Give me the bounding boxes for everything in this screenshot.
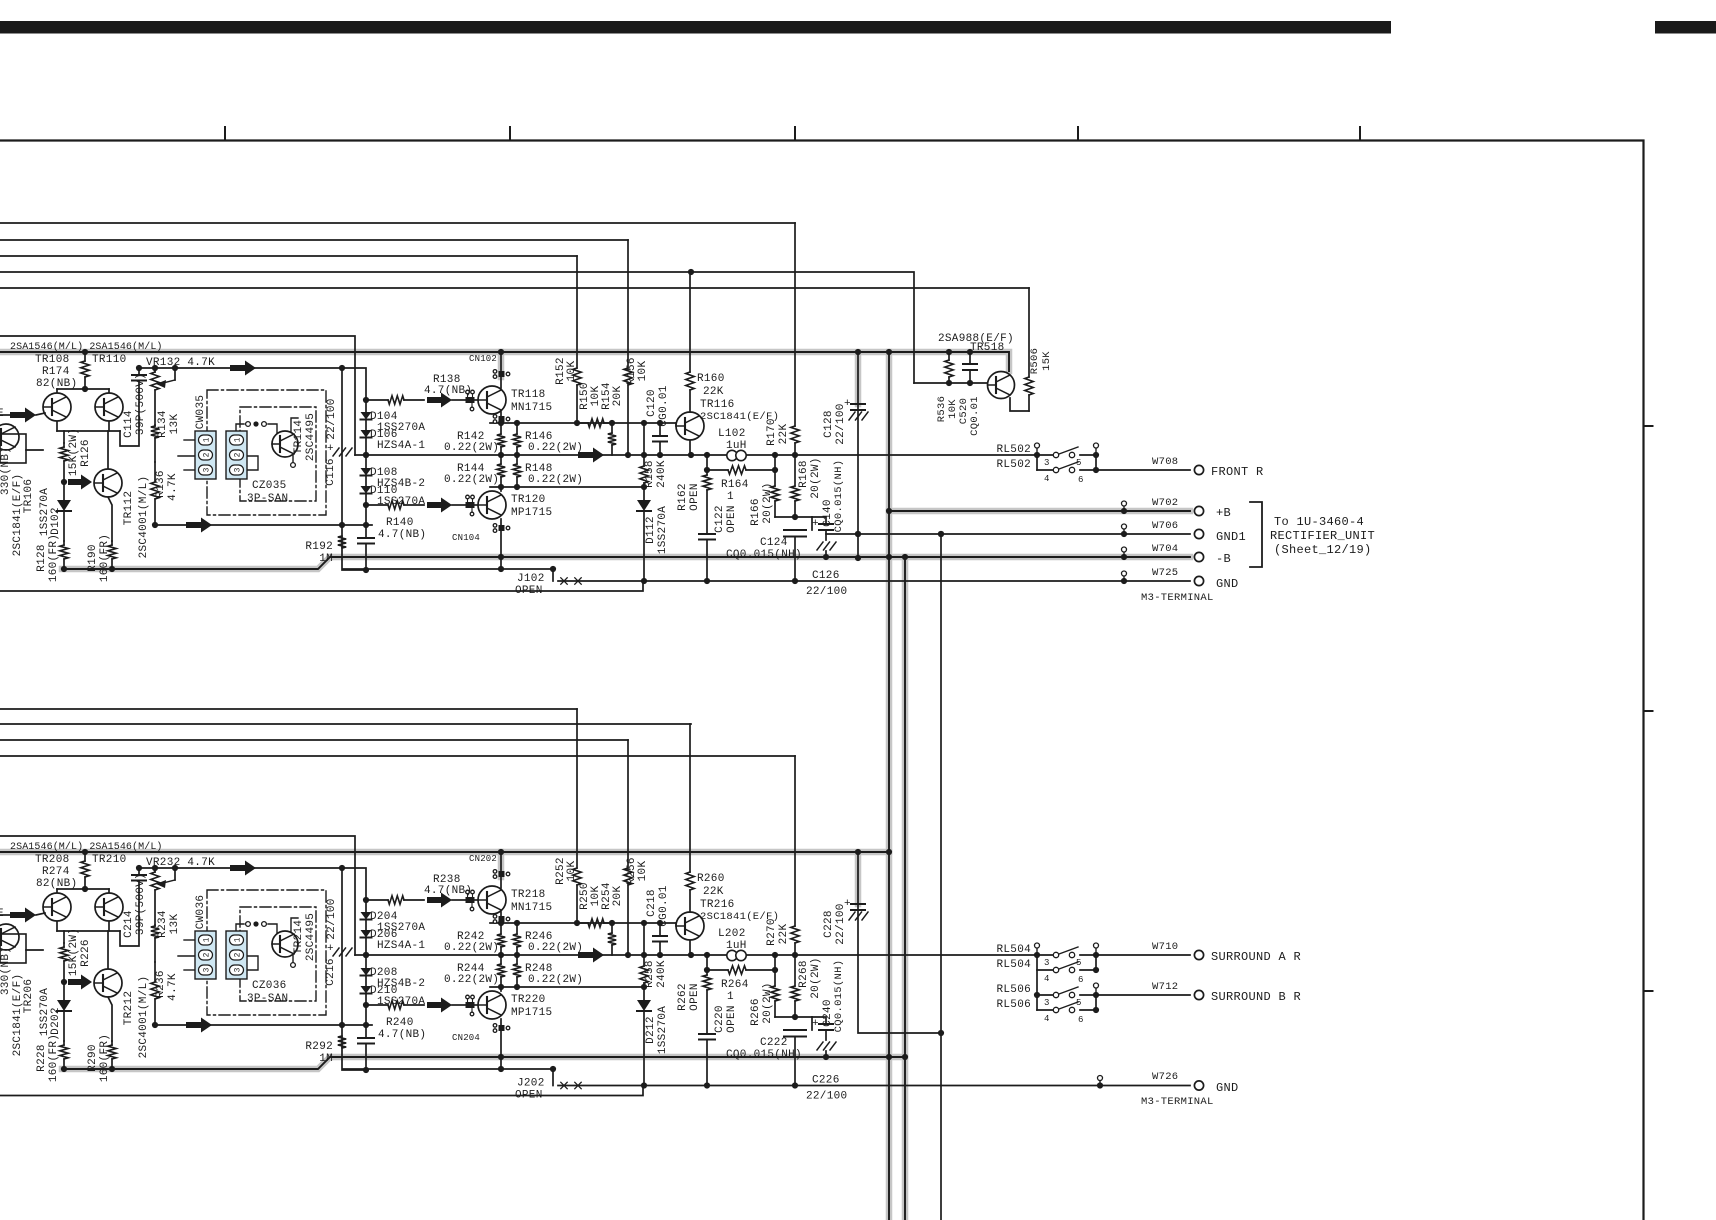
capacitor C114 [120,365,146,446]
label CZ036 [252,980,287,992]
label D212 [645,1016,657,1044]
label RL502 a [996,444,1031,456]
svg-text:C220: C220 [714,1005,726,1033]
label R158 [644,460,656,488]
signal arrow feedback line [186,518,369,533]
value 10K [637,361,649,382]
svg-text:5: 5 [1076,958,1082,968]
wire upper drive line [490,420,676,426]
svg-text:2SA1546(M/L) 2SA1546(M/L): 2SA1546(M/L) 2SA1546(M/L) [10,341,163,353]
value 4.7(NB) [378,529,426,541]
label C220 [714,1005,726,1033]
zener diode D206 [361,920,372,956]
svg-text:-B: -B [1216,552,1231,566]
label R160 [697,373,725,385]
resistor R174 [81,349,89,392]
label R150 [579,382,591,410]
label R262 [677,983,689,1011]
pin 3 RL504 [1044,958,1050,968]
svg-text:W708: W708 [1152,456,1178,468]
value 20(2W) [810,457,822,498]
value 0.22(2W) [528,442,583,454]
label D106 [370,429,398,441]
value 1SS270A [39,988,51,1036]
svg-text:10K: 10K [566,861,578,882]
svg-text:160(FR): 160(FR) [99,1034,111,1082]
relay RL502 contact 3-5 [1037,443,1099,458]
svg-text:C228: C228 [823,910,835,938]
jumper J202 [553,1069,581,1089]
value 240K [656,460,668,488]
resistor R156 [624,240,632,455]
connector CW035 [178,431,216,479]
node W706 test point [1122,524,1127,529]
label R152 [555,357,567,385]
svg-text:TR216: TR216 [700,899,735,911]
svg-text:22/100: 22/100 [806,1091,847,1103]
transistor TR206 [0,924,43,963]
capacitor C240 [812,1017,833,1040]
value 22/100 [806,586,847,598]
svg-text:TR214: TR214 [293,920,305,955]
svg-text:GND1: GND1 [1216,530,1246,544]
label R192 [305,541,333,553]
svg-text:0.22(2W): 0.22(2W) [444,942,499,954]
resistor R250 [580,919,612,927]
terminal W706 [1194,529,1203,538]
label CZ035 [252,480,287,492]
wire feeder bus D to TR518 base [0,272,914,383]
wire feedback line [155,524,372,526]
svg-text:R234: R234 [157,910,169,938]
value 10K [590,386,602,407]
svg-text:22K: 22K [778,924,790,945]
value 330(NB) [0,947,12,995]
resistor R162 [703,470,711,534]
svg-text:R174: R174 [42,366,70,378]
connector CN102 emitter pin [493,415,510,427]
relay RL504 contact 3-5 [1037,943,1099,958]
wire -B rail bus (highlighted) [62,557,905,569]
label R226 [80,939,92,967]
svg-text:1: 1 [727,491,734,503]
relay RL502 contact 4-6 [1037,455,1099,473]
svg-text:E: E [0,408,4,420]
svg-text:TR210: TR210 [92,854,127,866]
wire feeder bus C to R152 [0,255,577,257]
potentiometer VR132 [151,365,178,425]
label TR118 [511,389,546,401]
node junction D-chain mid [363,452,369,458]
label R190 [87,544,99,572]
label C122 [714,505,726,533]
label R146 [525,431,553,443]
wire feedback line [155,1024,372,1026]
svg-text:1M: 1M [319,553,333,565]
value 22/100 [835,903,847,944]
pin 6 RL506 [1078,1015,1084,1025]
transistor TR106 [0,424,43,463]
svg-text:W706: W706 [1152,520,1178,532]
svg-text:0.22(2W): 0.22(2W) [444,974,499,986]
label R292 [305,1041,333,1053]
signal arrow bias line [230,861,256,876]
label D202 [50,1007,62,1035]
resistor R290 [108,997,116,1072]
wire TR120 emitter [500,487,502,491]
svg-text:1: 1 [234,937,243,942]
svg-text:C226: C226 [812,1075,840,1087]
node W726 junction [1097,1081,1103,1089]
svg-text:R164: R164 [721,479,749,491]
zener diode D210 [361,976,372,1006]
wire ground line to W725 [558,1082,1190,1088]
resistor R158 [640,420,648,487]
label D102 [50,507,62,535]
resistor R136 [151,462,159,528]
svg-text:0.22(2W): 0.22(2W) [528,442,583,454]
label R246 [525,931,553,943]
resistor R240 [366,1001,424,1009]
resistor R134 [151,425,159,462]
svg-text:20K: 20K [612,886,624,907]
value OPEN [726,1005,738,1033]
terminal W704 [1194,552,1203,561]
label TR106 [23,479,35,514]
svg-text:C120: C120 [646,389,658,417]
wire feeder bus B2 to R260 [0,723,691,725]
value 4.7K [167,973,179,1001]
pin 3 RL506 [1044,998,1050,1008]
svg-text:1: 1 [203,437,212,442]
svg-text:RL504: RL504 [996,944,1031,956]
transistor TR118 [478,386,506,414]
svg-text:C214: C214 [123,910,135,938]
svg-text:W725: W725 [1152,567,1178,579]
svg-text:160(FR): 160(FR) [48,534,60,582]
wire highlight halos [0,352,1190,1220]
svg-text:20K: 20K [612,386,624,407]
resistor R140 [366,501,424,509]
node junction R126/D102 [61,479,67,485]
svg-text:RL506: RL506 [996,999,1031,1011]
wire input lead [0,914,10,916]
value 1SS270A [377,922,425,934]
value 2SC4495 [305,413,317,461]
value 0.22(2W) [528,474,583,486]
label 2SA988(E/F) [938,333,1014,345]
signal arrow to TR218 base [427,893,466,908]
wire -B rail to W704 (highlighted) [905,556,1190,558]
relay RL506 contact 3-5 [1037,983,1099,998]
capacitor C118 [358,505,374,573]
svg-text:VR132 4.7K: VR132 4.7K [146,357,215,369]
node W704 junction [1121,552,1127,560]
svg-text:6: 6 [1078,1015,1084,1025]
svg-text:R266: R266 [750,998,762,1026]
svg-text:R190: R190 [87,544,99,572]
svg-text:CQ0.015(NH): CQ0.015(NH) [833,460,845,533]
label GND1 [1216,530,1246,544]
resistor R128 [60,541,68,572]
label CN102 [469,354,497,364]
diode D202 [57,982,71,1041]
svg-text:TR208: TR208 [35,854,70,866]
svg-text:OPEN: OPEN [515,1090,543,1102]
wire feeder bus A2 to R252 [0,708,577,710]
value 15K(2W) [68,428,80,476]
svg-text:MN1715: MN1715 [511,902,552,914]
resistor R248 [513,955,521,987]
label R144 [457,463,485,475]
svg-text:C222: C222 [760,1037,788,1049]
svg-text:MP1715: MP1715 [511,507,552,519]
svg-text:J202: J202 [517,1078,545,1090]
svg-text:TR212: TR212 [123,991,135,1026]
svg-text:C122: C122 [714,505,726,533]
label D204 [370,911,398,923]
label RL504 a [996,944,1031,956]
label R264 [721,979,749,991]
svg-text:2SC4001(M/L): 2SC4001(M/L) [138,476,150,559]
svg-text:D102: D102 [50,507,62,535]
svg-text:4.7(NB): 4.7(NB) [378,1029,426,1041]
value 2SC1841(E/F) [12,474,24,557]
label TR114 [293,420,305,455]
resistor R228 [60,1041,68,1072]
node W725 junction [1121,576,1127,584]
label R162 [677,483,689,511]
wire feeder bus A to R170 [0,222,795,224]
signal arrow to TR118 base [427,393,466,408]
wire feeder bus B to R156 [0,239,628,241]
value 82(NB) [36,378,77,390]
svg-text:R228: R228 [36,1044,48,1072]
label D206 [370,929,398,941]
value 10K [566,361,578,382]
resistor R126 [60,431,68,482]
svg-text:3P-SAN: 3P-SAN [247,493,288,505]
connector CN204 collector pin [493,1024,510,1072]
value OPEN [689,983,701,1011]
connector CN104 collector pin [493,524,510,573]
connector CN102 collector pin [493,370,510,379]
resistor R146 [513,423,521,455]
wire TR114 base link [236,421,277,444]
label CW035 [195,395,207,430]
value 1 [727,991,734,1003]
wire W702 +B (highlighted) [889,506,1190,514]
label M3-TERMINAL [1141,592,1214,604]
node W725 test point [1122,571,1127,576]
zener diode D106 [361,420,372,456]
svg-text:OPEN: OPEN [726,505,738,533]
wire bias line [139,368,366,400]
value 22K [778,424,790,445]
label R126 [80,439,92,467]
value 20(2W) [762,982,774,1023]
connector CZ035 header [226,431,247,479]
value HZS4B-2 [377,978,425,990]
value 2SC1841(E/F) [12,974,24,1057]
wire bottom return line [343,1066,556,1072]
svg-text:GND: GND [1216,577,1239,591]
signal arrow bias line [230,361,256,376]
value 0.22(2W) [444,974,499,986]
label C114 [123,410,135,438]
svg-text:5: 5 [1076,998,1082,1008]
label R140 [386,517,414,529]
value 22K [703,886,724,898]
svg-text:22K: 22K [703,386,724,398]
svg-text:0.22(2W): 0.22(2W) [528,474,583,486]
svg-text:330(NB): 330(NB) [0,447,12,495]
wire output rail [355,454,1037,456]
pin 3 [1044,458,1050,468]
wire lower drive line [490,484,647,490]
svg-text:5: 5 [1076,458,1082,468]
zener diode D108 [361,455,372,476]
svg-text:C128: C128 [823,410,835,438]
svg-text:4: 4 [1044,974,1050,984]
resistor R252 [573,709,581,923]
value 1uH [726,940,747,952]
label L202 [718,928,746,940]
svg-text:+: + [327,943,334,955]
label TR208 [35,854,70,866]
wire W706 GND1 [826,529,1190,537]
wire TR220 collector [500,1019,502,1069]
svg-text:MN1715: MN1715 [511,402,552,414]
wire TR208 TR210 top link [57,889,109,893]
label R168 [798,460,810,488]
jumper J102 [553,569,581,584]
svg-text:330(NB): 330(NB) [0,947,12,995]
label R238 [433,874,461,886]
value 1M [319,1053,333,1065]
wire feeder bus C2 to R256 [0,739,628,741]
pin 5 RL506 [1076,998,1082,1008]
capacitor C116 [327,365,366,570]
label TR212 [123,991,135,1026]
svg-text:22/100: 22/100 [835,403,847,444]
svg-text:CQ0.015(NH): CQ0.015(NH) [726,549,802,561]
label C228 [823,910,835,938]
label TR116 [700,399,735,411]
wire TR118 emitter [500,412,502,423]
relay RL506 contact 4-6 [1037,995,1099,1013]
wire TR108 TR110 top link [57,389,109,393]
svg-text:R258: R258 [644,960,656,988]
svg-text:R268: R268 [798,960,810,988]
svg-text:R192: R192 [305,541,333,553]
label R258 [644,960,656,988]
value 0.22(2W) [444,442,499,454]
diode D212 [637,987,651,1086]
label C240 [822,999,834,1027]
value 22/100 [326,398,338,439]
svg-text:CN104: CN104 [452,533,480,543]
wire TR120 collector [500,519,502,569]
label J202 [517,1078,545,1090]
svg-text:CW035: CW035 [195,395,207,430]
wire CZ035 pin2 pin3 link [247,456,258,470]
value 4.7(NB) [424,885,472,897]
svg-text:L102: L102 [718,428,746,440]
label TR210 [92,854,127,866]
svg-text:SURROUND B R: SURROUND B R [1211,990,1301,1004]
node junctions on output rail [363,952,798,958]
svg-text:C116: C116 [325,458,337,486]
svg-text:L202: L202 [718,928,746,940]
node W702 test point [1122,501,1127,506]
svg-text:160(FR): 160(FR) [99,534,111,582]
svg-text:22/100: 22/100 [326,398,338,439]
svg-text:VR232 4.7K: VR232 4.7K [146,857,215,869]
connector CN204 base pin [466,995,489,1016]
resistor R150 [580,419,612,427]
terminal W708 [1194,465,1203,474]
value 2SC1841(E/F) [700,911,779,923]
wire TR518 base line [914,380,987,386]
label GND bottom [1216,1081,1239,1095]
svg-text:15K(2W): 15K(2W) [68,928,80,976]
svg-text:TR110: TR110 [92,354,127,366]
transistor TR518 [988,372,1015,399]
terminal W712 [1194,990,1203,999]
svg-text:RL502: RL502 [996,444,1031,456]
value 22/100 [835,403,847,444]
label R290 [87,1044,99,1072]
svg-text:240K: 240K [656,460,668,488]
zener diode D104 [361,400,372,420]
svg-text:OPEN: OPEN [689,483,701,511]
svg-text:R274: R274 [42,866,70,878]
label TR220 [511,994,546,1006]
resistor R260 [686,724,694,912]
label C140 [822,499,834,527]
wire ground return to edge [0,581,643,591]
svg-text:R264: R264 [721,979,749,991]
value 20K [612,886,624,907]
svg-text:240K: 240K [656,960,668,988]
value 1SS270A [39,488,51,536]
svg-text:R162: R162 [677,483,689,511]
wire ground return to edge [0,1086,643,1096]
resistor R506 [1025,288,1033,411]
svg-text:39P(500V): 39P(500V) [135,373,147,435]
wire +B rail bus (highlighted) [0,352,1009,371]
label C218 [646,889,658,917]
svg-text:GND: GND [1216,1081,1239,1095]
resistor R242 [497,923,505,955]
svg-text:2SC4495: 2SC4495 [305,413,317,461]
signal arrow into TR108 [10,408,45,423]
value 20(2W) [762,482,774,523]
svg-text:CN202: CN202 [469,854,497,864]
svg-text:4.7(NB): 4.7(NB) [424,885,472,897]
label C126 [812,570,840,582]
label 2SA1546(M/L) 2SA1546(M/L) [10,341,163,353]
svg-text:0.22(2W): 0.22(2W) [444,474,499,486]
svg-text:E: E [0,908,4,920]
module CZ035 outline [207,390,326,515]
svg-text:6: 6 [1078,475,1084,485]
relay RL506 common node [1034,992,1040,998]
label R142 [457,431,485,443]
resistor R244 [497,955,505,987]
signal arrow to TR220 base [427,998,466,1013]
